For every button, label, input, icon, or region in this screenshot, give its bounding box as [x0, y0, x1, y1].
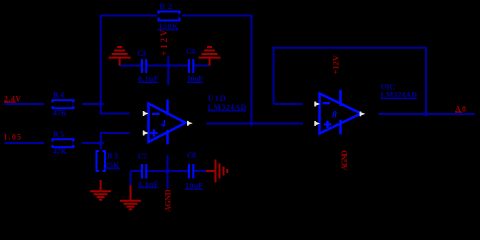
wire node A jog to op-amp U1D inverting input: [101, 104, 130, 114]
wire node A up to R2 left: [100, 16, 102, 105]
wire node C down to R3: [100, 143, 102, 151]
svg-text:R3: R3: [107, 152, 118, 161]
wire U1D V- pin down to node E: [167, 155, 169, 171]
svg-text:C7: C7: [138, 152, 147, 161]
wire feedback left vertical: [273, 47, 275, 104]
op-amp U1C output pin arrow: [360, 112, 366, 117]
capacitor C8 plates: [188, 164, 195, 179]
wire R5 to node C: [82, 142, 101, 144]
op-amp U1C body: [320, 90, 362, 135]
resistor R2 body: [159, 12, 180, 21]
wire U1C output to net A0: [378, 113, 474, 115]
svg-text:C4: C4: [186, 47, 195, 56]
ground G2 (inverted, above +12V rail): [199, 47, 221, 66]
resistor R5 body: [53, 139, 74, 147]
svg-text:C8: C8: [187, 151, 196, 160]
wire node E down to AGND label: [167, 171, 169, 189]
svg-text:AGND: AGND: [340, 150, 349, 171]
capacitor C3 plates: [141, 59, 148, 73]
ground G1 (inverted, above +12V rail): [109, 47, 131, 66]
svg-text:+12V: +12V: [159, 29, 169, 56]
op-amp U1D input pin arrow (non-inverting): [143, 131, 149, 136]
svg-text:8: 8: [332, 109, 337, 119]
svg-text:AGND: AGND: [163, 189, 172, 212]
wire feedback to U1C inverting input: [274, 103, 304, 105]
wire node C jog up to op-amp U1D non-inverting input: [101, 133, 130, 143]
wire node D down toward U1D V+ pin: [167, 66, 169, 86]
ground G5 (right of C8, pointing right): [206, 160, 227, 183]
op-amp U1D plus input mark: [150, 132, 157, 134]
op-amp U1C input pin arrow (non-inverting): [314, 121, 320, 126]
junction node A: [97, 102, 105, 107]
capacitor C7 plates: [141, 164, 148, 179]
junction node F: [422, 112, 430, 117]
ground G4 (below AGND rail left): [120, 185, 141, 209]
wire +12V rail: ground G1 to C3: [120, 65, 141, 67]
wire +12V stub up from node D: [167, 56, 169, 66]
wire AGND rail: G4 to C7: [131, 170, 141, 172]
svg-text:47K: 47K: [53, 147, 68, 156]
wire U1D output to U1C non-inverting input: [206, 123, 303, 125]
op-amp U1C input pin arrow (inverting): [314, 102, 320, 107]
junction node B: [248, 121, 256, 126]
wire C4 to ground G2: [195, 65, 210, 67]
op-amp U1D output pin arrow: [187, 121, 193, 126]
svg-text:4: 4: [160, 119, 166, 130]
svg-text:+12V: +12V: [331, 54, 341, 74]
wire C7 to C8 through node E: [147, 170, 187, 172]
op-amp U1C minus input mark: [323, 102, 331, 104]
op-amp U1C plus input mark: [324, 123, 331, 125]
svg-text:U1D: U1D: [208, 94, 226, 103]
svg-text:1.05: 1.05: [4, 133, 22, 142]
op-amp U1D input pin arrow (inverting): [143, 111, 149, 116]
wire R2 right down to node B: [251, 15, 253, 124]
wire C3 to C4 through node D: [147, 65, 187, 67]
capacitor C4 plates: [188, 59, 195, 73]
wire R2 left lead: [100, 15, 158, 17]
wire C8 to ground G5: [194, 170, 206, 172]
wire U1C feedback top rail: [274, 47, 427, 49]
wire R4 to node A: [82, 103, 101, 105]
svg-text:R5: R5: [53, 130, 64, 139]
wire AGND rail left end down to ground G4: [130, 171, 132, 185]
wire feedback right vertical from node F: [425, 47, 427, 114]
junction node E: [164, 169, 172, 174]
svg-text:C3: C3: [137, 49, 146, 58]
svg-text:R4: R4: [53, 91, 64, 100]
op-amp U1D body: [149, 100, 186, 145]
svg-text:47K: 47K: [53, 108, 68, 117]
junction node D: [165, 63, 172, 68]
wire net 1.05 to R5: [5, 142, 45, 144]
junction node C: [97, 141, 105, 146]
resistor R3 body (vertical): [97, 151, 106, 171]
resistor R4 body: [53, 100, 74, 108]
op-amp U1D minus input mark: [152, 113, 160, 115]
wire R2 right lead: [180, 15, 252, 17]
wire net 2.4V to R4: [5, 103, 45, 105]
ground G3 (below R3): [90, 180, 111, 200]
